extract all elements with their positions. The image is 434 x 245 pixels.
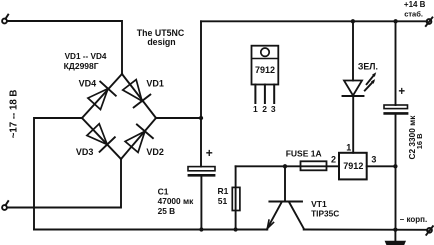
transistor VT1 [267,166,303,228]
svg-text:C1: C1 [158,186,169,196]
wire minus bottom rail right [304,229,428,231]
wire bridge edge VD2 [121,118,156,159]
node base junction [283,164,287,168]
wire bridge edge VD1 [122,74,156,118]
svg-text:1: 1 [253,104,258,114]
svg-text:3: 3 [271,104,276,114]
wire top plus rail [201,20,427,22]
wire bridge edge VD4 [82,74,122,118]
wire minus bottom rail left [34,229,267,231]
wire plus riser [200,21,202,166]
node pin3 junction [393,164,397,168]
ground [385,230,406,245]
svg-text:стаб.: стаб. [404,10,423,19]
svg-text:47000 мк: 47000 мк [158,196,195,206]
terminal input top [2,15,8,24]
svg-text:VD1 -- VD4: VD1 -- VD4 [65,52,107,61]
svg-text:+: + [206,146,213,160]
terminal input bottom [2,201,8,210]
diode VD4 [86,82,115,111]
wire pin1 to LED [352,96,354,153]
svg-text:25 В: 25 В [158,206,176,216]
capacitor C2 [383,21,408,229]
wire bridge edge VD3 [82,118,121,159]
svg-text:2: 2 [262,104,267,114]
node ground junction [393,227,397,231]
svg-text:VD2: VD2 [146,147,164,157]
svg-text:VD4: VD4 [79,78,97,88]
svg-text:+14 В: +14 В [404,0,426,9]
package drawing 7912 TO-220 [252,46,279,114]
svg-text:TIP35C: TIP35C [311,209,339,219]
svg-text:ЗЕЛ.: ЗЕЛ. [358,62,378,72]
wire top-left AC [7,21,122,74]
node C2 top junction [393,19,397,23]
capacitor C1 [188,167,216,230]
svg-text:– корп.: – корп. [400,215,427,224]
fuse FUSE 1A [285,161,339,170]
node R1 bottom junction [233,227,237,231]
svg-text:VD3: VD3 [76,147,94,157]
svg-text:КД2998Г: КД2998Г [64,61,99,71]
wire bottom AC to bridge bottom node [7,159,121,208]
svg-text:VD1: VD1 [146,78,164,88]
regulator U1 7912 box [339,153,367,180]
wire bridge right node to plus node [156,117,201,119]
diode VD3 [85,122,114,151]
node plus junction [199,116,203,120]
resistor R1 [232,166,240,229]
svg-text:7912: 7912 [343,161,363,171]
svg-text:16 В: 16 В [415,133,424,149]
LED HL1 green [343,21,377,96]
terminal -korp [426,226,433,235]
svg-text:3: 3 [371,154,376,164]
diode VD2 [124,124,153,153]
svg-text:FUSE 1A: FUSE 1A [286,148,322,158]
svg-text:2: 2 [331,154,336,164]
node LED top junction [351,19,355,23]
diode VD1 [121,78,150,107]
svg-text:design: design [147,37,175,47]
wire bridge left node to minus rail [34,118,82,230]
svg-text:VT1: VT1 [311,199,327,209]
svg-text:1: 1 [346,142,351,152]
terminal +14V [426,17,433,26]
svg-text:~17 -- 18 В: ~17 -- 18 В [9,90,20,139]
svg-text:51: 51 [218,196,228,206]
svg-text:R1: R1 [218,186,229,196]
svg-text:7912: 7912 [255,65,275,75]
wire R1 top to base node [236,165,285,167]
svg-text:+: + [398,86,405,98]
node C1 bottom junction [199,227,203,231]
wire pin3 to output rail [367,165,396,167]
